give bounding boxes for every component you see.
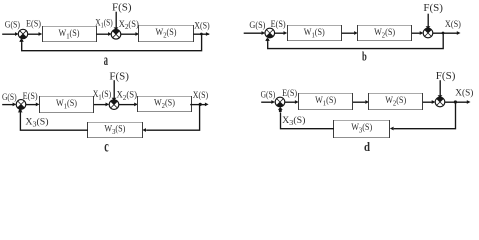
svg-text:W1(S): W1(S) <box>56 98 77 110</box>
svg-text:F(S): F(S) <box>112 1 132 13</box>
svg-text:W1(S): W1(S) <box>315 95 336 107</box>
arrowhead output c <box>205 103 209 107</box>
wire J1d to W1d <box>285 101 295 103</box>
arrowhead into J2d <box>432 100 436 104</box>
arrowhead into W1d <box>295 100 299 104</box>
node feedback a <box>20 39 23 42</box>
arrowhead feedback into J1c <box>18 109 23 112</box>
summing junction J1a <box>18 29 27 38</box>
svg-text:X(S): X(S) <box>194 21 210 32</box>
wire feedback a <box>22 34 202 51</box>
block W2 d <box>368 93 423 110</box>
wire J2c to W2c <box>119 104 134 106</box>
arrowhead into W3d <box>390 127 394 131</box>
arrowhead into J2b <box>420 31 424 35</box>
wire feedback b <box>268 33 444 48</box>
arrowhead input d <box>271 100 275 104</box>
wire input b <box>244 32 263 34</box>
wire feedback c left <box>20 112 88 130</box>
summing junction J2b <box>423 28 433 38</box>
block W2 b <box>357 25 412 41</box>
summing junction J1c <box>16 100 26 110</box>
wire feedback d down <box>394 102 456 129</box>
wire W1b to W2b <box>342 32 355 34</box>
summing junction J1b <box>265 28 275 38</box>
node feedback d <box>279 109 282 112</box>
svg-text:W2(S): W2(S) <box>156 27 177 39</box>
arrowhead output a <box>206 32 210 36</box>
wire J1c to W1c <box>26 104 36 106</box>
block W3 d <box>333 120 390 138</box>
arrowhead into W2b <box>354 31 358 35</box>
wire input a <box>2 33 16 35</box>
block W2 a <box>138 25 194 42</box>
svg-text:F(S): F(S) <box>109 71 129 83</box>
wire input d <box>261 101 272 103</box>
wire feedback c down <box>146 105 199 131</box>
svg-text:X2(S): X2(S) <box>117 89 138 101</box>
wire W1c to J2c <box>94 104 106 106</box>
wire F input a <box>115 12 117 29</box>
wire J1b to W1b <box>275 32 284 34</box>
summing junction J2d <box>435 97 445 107</box>
arrowhead F into J2b <box>426 26 431 29</box>
svg-text:W2(S): W2(S) <box>154 97 175 109</box>
wire J2a to W2a <box>121 33 136 35</box>
svg-text:W1(S): W1(S) <box>304 27 325 39</box>
arrowhead F into J2a <box>114 27 119 30</box>
svg-text:X1(S): X1(S) <box>95 17 113 29</box>
svg-text:E(S): E(S) <box>26 18 41 29</box>
arrowhead into W1a <box>39 32 43 36</box>
wire J1a to W1a <box>28 33 39 35</box>
arrowhead feedback into J1a <box>19 39 24 42</box>
svg-text:X3(S): X3(S) <box>25 116 48 128</box>
wire output a <box>193 33 209 35</box>
wire input c <box>2 104 13 106</box>
wire W1a to J2a <box>96 33 108 35</box>
svg-text:W2(S): W2(S) <box>385 95 406 107</box>
svg-text:G(S): G(S) <box>249 20 265 31</box>
wire output b <box>433 32 458 34</box>
svg-text:F(S): F(S) <box>436 70 456 82</box>
node tap a <box>200 33 203 36</box>
node tap c <box>199 103 202 106</box>
svg-text:a: a <box>104 52 108 69</box>
block W1 b <box>287 25 342 41</box>
wire W2d to J2d <box>423 101 432 103</box>
wire F input d <box>439 80 441 97</box>
arrowhead into J2a <box>108 32 112 36</box>
arrowhead F into J2d <box>438 95 443 98</box>
svg-text:W1(S): W1(S) <box>59 28 80 40</box>
arrowhead into W3c <box>142 128 146 132</box>
svg-text:E(S): E(S) <box>282 88 297 99</box>
arrowhead into J2c <box>106 103 110 107</box>
wire W1d to W2d <box>353 101 365 103</box>
wire output c <box>190 104 205 106</box>
svg-text:E(S): E(S) <box>271 19 286 30</box>
svg-text:d: d <box>364 140 370 152</box>
block W1 a <box>42 26 97 42</box>
arrowhead into W2a <box>135 32 139 36</box>
arrowhead into W1b <box>284 31 288 35</box>
svg-text:c: c <box>104 138 109 152</box>
summing junction J1d <box>275 97 285 107</box>
arrowhead into W1c <box>36 103 40 107</box>
node feedback c <box>19 109 22 112</box>
summing junction J2a <box>111 30 121 40</box>
svg-text:X3(S): X3(S) <box>282 115 305 127</box>
svg-text:b: b <box>362 48 367 63</box>
svg-text:W3(S): W3(S) <box>351 122 372 134</box>
arrowhead feedback into J1d <box>278 107 283 110</box>
block W2 c <box>137 96 192 112</box>
arrowhead input b <box>262 31 266 35</box>
svg-text:G(S): G(S) <box>2 92 17 103</box>
wire F input c <box>113 80 115 99</box>
svg-text:W3(S): W3(S) <box>104 123 125 135</box>
svg-text:G(S): G(S) <box>5 19 20 30</box>
arrowhead input a <box>15 32 19 36</box>
svg-text:G(S): G(S) <box>261 89 276 100</box>
block W1 d <box>298 93 353 110</box>
arrowhead output d <box>467 100 471 104</box>
wire output d <box>445 101 467 103</box>
control-system block diagrams a, b, c, d <box>0 0 479 152</box>
svg-text:F(S): F(S) <box>423 2 443 14</box>
svg-text:W2(S): W2(S) <box>374 27 395 39</box>
svg-text:E(S): E(S) <box>23 91 38 102</box>
arrowhead F into J2c <box>112 98 117 101</box>
svg-text:X(S): X(S) <box>445 19 461 30</box>
block W1 c <box>39 96 94 113</box>
node tap d <box>454 100 457 103</box>
wire feedback d left <box>281 113 335 129</box>
arrowhead input c <box>13 103 17 107</box>
wire F input b <box>427 14 429 28</box>
node tap b <box>442 32 445 35</box>
arrowhead into W2c <box>134 103 138 107</box>
arrowhead into W2d <box>365 100 369 104</box>
block W3 c <box>87 122 143 138</box>
summing junction J2c <box>109 100 119 110</box>
arrowhead feedback into J1b <box>265 38 270 41</box>
svg-text:X(S): X(S) <box>193 90 209 101</box>
svg-text:X2(S): X2(S) <box>119 19 139 31</box>
svg-text:X(S): X(S) <box>455 88 473 99</box>
node feedback b <box>266 38 269 41</box>
arrowhead output b <box>457 31 461 35</box>
svg-text:X1(S): X1(S) <box>93 89 112 101</box>
wire W2b to J2b <box>412 32 420 34</box>
